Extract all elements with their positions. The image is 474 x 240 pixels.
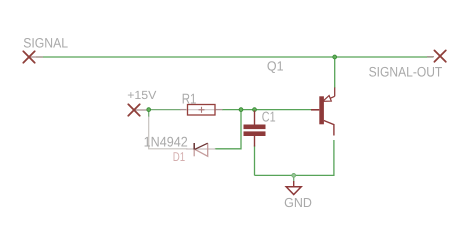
svg-text:C1: C1 <box>262 110 276 126</box>
svg-text:Q1: Q1 <box>267 58 284 73</box>
svg-text:+15V: +15V <box>127 88 156 102</box>
svg-text:R1: R1 <box>182 92 197 108</box>
svg-text:GND: GND <box>284 195 312 210</box>
svg-text:1N4942: 1N4942 <box>144 134 188 150</box>
svg-text:SIGNAL-OUT: SIGNAL-OUT <box>369 64 443 79</box>
svg-text:D1: D1 <box>173 149 185 164</box>
svg-text:SIGNAL: SIGNAL <box>23 36 68 51</box>
